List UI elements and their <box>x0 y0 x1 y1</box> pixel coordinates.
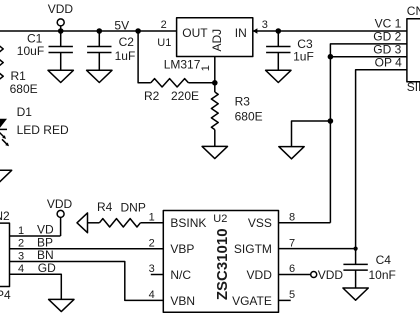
svg-text:1: 1 <box>200 65 212 71</box>
svg-text:VBP: VBP <box>170 242 194 256</box>
power flag VDD pin6 <box>311 268 344 282</box>
svg-text:BSINK: BSINK <box>170 216 206 230</box>
wire 5V down to R2 <box>138 31 151 83</box>
svg-text:ADJ: ADJ <box>210 29 224 52</box>
svg-text:680E: 680E <box>10 82 38 96</box>
svg-text:VC 1: VC 1 <box>375 17 402 31</box>
svg-text:SIP4: SIP4 <box>407 80 420 94</box>
svg-text:C4: C4 <box>376 253 392 267</box>
svg-text:680E: 680E <box>235 110 263 124</box>
wire OP4 <box>356 70 407 265</box>
svg-text:U2: U2 <box>213 213 227 225</box>
svg-text:1: 1 <box>149 211 155 223</box>
svg-text:VDD: VDD <box>247 268 273 282</box>
svg-text:2: 2 <box>149 237 155 249</box>
node 5V <box>114 18 141 34</box>
svg-text:3: 3 <box>149 263 155 275</box>
svg-text:OUT: OUT <box>182 26 208 40</box>
svg-text:VDD: VDD <box>48 2 74 16</box>
node junction ground tee <box>328 118 334 124</box>
svg-text:4: 4 <box>18 263 24 275</box>
wire BN pin3 to VBN <box>10 262 164 301</box>
svg-text:GD: GD <box>38 261 56 275</box>
power flag VDD left <box>47 197 73 236</box>
svg-text:3: 3 <box>18 250 24 262</box>
wire VD pin1 <box>10 235 61 237</box>
svg-text:VBN: VBN <box>170 294 195 308</box>
ground below C3 <box>266 70 291 82</box>
wire R4 to BSINK <box>140 222 163 224</box>
svg-text:OP 4: OP 4 <box>375 56 402 70</box>
IC U2 ZSC31010 <box>163 211 278 313</box>
svg-text:1: 1 <box>18 225 24 237</box>
svg-text:CN1: CN1 <box>407 4 420 18</box>
svg-text:SIGTM: SIGTM <box>234 242 272 256</box>
svg-text:VGATE: VGATE <box>232 294 272 308</box>
resistor R1 680E <box>0 46 38 96</box>
svg-text:LED RED: LED RED <box>17 123 69 137</box>
resistor R3 680E <box>211 92 262 130</box>
svg-text:IN: IN <box>235 26 247 40</box>
pin 5 VGATE stub <box>279 299 291 301</box>
resistor R4 DNP <box>97 200 146 227</box>
svg-text:U1: U1 <box>157 37 171 49</box>
wire VDD pin6 <box>279 274 311 276</box>
node junction GD3 <box>328 54 334 60</box>
pin 3 N/C stub <box>151 274 164 276</box>
svg-text:5: 5 <box>289 289 295 301</box>
svg-text:4: 4 <box>149 289 155 301</box>
ground below GD <box>49 299 74 311</box>
svg-text:2: 2 <box>161 19 167 31</box>
svg-text:R4: R4 <box>97 200 113 214</box>
ground below C1 <box>48 70 73 82</box>
node junction ADJ/R2/R3 <box>212 80 218 86</box>
wire SIGTM <box>279 248 356 250</box>
wire arrow to R4 <box>88 222 100 224</box>
svg-text:5V: 5V <box>114 18 129 32</box>
svg-text:1uF: 1uF <box>115 49 136 63</box>
capacitor C4 <box>343 253 395 288</box>
LED D1 <box>0 105 69 147</box>
svg-text:220E: 220E <box>171 89 199 103</box>
svg-text:D1: D1 <box>17 105 33 119</box>
regulator U1 LM317 <box>157 18 268 72</box>
pin 3 IN arrow <box>253 28 258 34</box>
svg-text:1uF: 1uF <box>293 50 314 64</box>
svg-text:VSS: VSS <box>248 216 272 230</box>
svg-text:SIP4: SIP4 <box>0 288 11 302</box>
pin 1 ADJ wire down <box>214 57 216 93</box>
wire GD3 <box>330 56 407 58</box>
svg-text:GD 2: GD 2 <box>373 30 401 44</box>
connector CN1 <box>373 4 420 94</box>
wire VSS to GD vertical <box>279 222 331 224</box>
svg-text:7: 7 <box>289 237 295 249</box>
svg-text:VDD: VDD <box>318 268 344 282</box>
svg-text:10nF: 10nF <box>369 268 396 282</box>
svg-text:DNP: DNP <box>121 200 146 214</box>
svg-text:GD 3: GD 3 <box>373 42 401 56</box>
capacitor C1 <box>17 31 73 70</box>
svg-text:R3: R3 <box>235 95 251 109</box>
svg-text:3: 3 <box>262 19 268 31</box>
resistor R2 220E <box>144 79 199 103</box>
node junction SIGTM/C4 <box>354 247 358 251</box>
wire R3 to ground <box>214 130 216 147</box>
svg-text:R2: R2 <box>144 89 160 103</box>
svg-text:VDD: VDD <box>47 197 73 211</box>
svg-text:8: 8 <box>289 211 295 223</box>
wire VDD rail top <box>0 30 177 32</box>
node junction C3 <box>276 28 282 34</box>
wire GD2 <box>330 44 407 223</box>
ground below LED <box>0 170 12 182</box>
svg-text:2: 2 <box>18 238 24 250</box>
svg-text:CN2: CN2 <box>0 209 10 223</box>
ground mid <box>279 147 304 159</box>
wire ground tee <box>292 121 331 147</box>
wire GD pin4 to ground <box>10 274 62 299</box>
ground below C4 <box>343 288 368 300</box>
node junction C2 <box>97 28 103 34</box>
capacitor C3 <box>266 31 314 70</box>
wire R2 to ADJ node <box>188 82 214 84</box>
ground below R3 <box>202 146 227 158</box>
wire BP pin2 to VBP <box>10 248 164 250</box>
connector CN2 <box>0 209 56 302</box>
power flag VDD top <box>48 2 74 31</box>
capacitor C2 <box>87 31 135 70</box>
svg-text:10uF: 10uF <box>17 44 44 58</box>
node junction VDD/C1 <box>58 28 64 34</box>
svg-text:LM317: LM317 <box>164 57 201 71</box>
svg-text:ZSC31010: ZSC31010 <box>214 228 231 300</box>
wire IN to VC <box>253 30 407 32</box>
no-connect arrow R4 <box>77 213 88 233</box>
svg-text:C2: C2 <box>119 35 135 49</box>
ground below C2 <box>87 70 112 82</box>
svg-text:N/C: N/C <box>170 268 191 282</box>
svg-text:6: 6 <box>289 263 295 275</box>
